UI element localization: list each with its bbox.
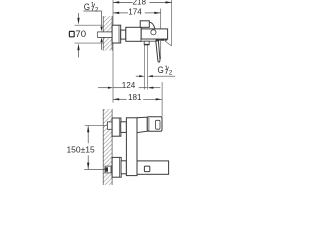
- svg-text:2: 2: [169, 70, 173, 77]
- svg-text:G: G: [84, 2, 90, 12]
- svg-text:G: G: [158, 65, 164, 75]
- svg-text:2: 2: [95, 6, 99, 13]
- svg-text:70: 70: [75, 29, 86, 40]
- svg-text:124: 124: [122, 81, 136, 90]
- svg-text:150±15: 150±15: [66, 144, 95, 154]
- svg-text:218: 218: [132, 0, 146, 6]
- svg-text:181: 181: [128, 93, 142, 102]
- svg-text:174: 174: [128, 7, 142, 16]
